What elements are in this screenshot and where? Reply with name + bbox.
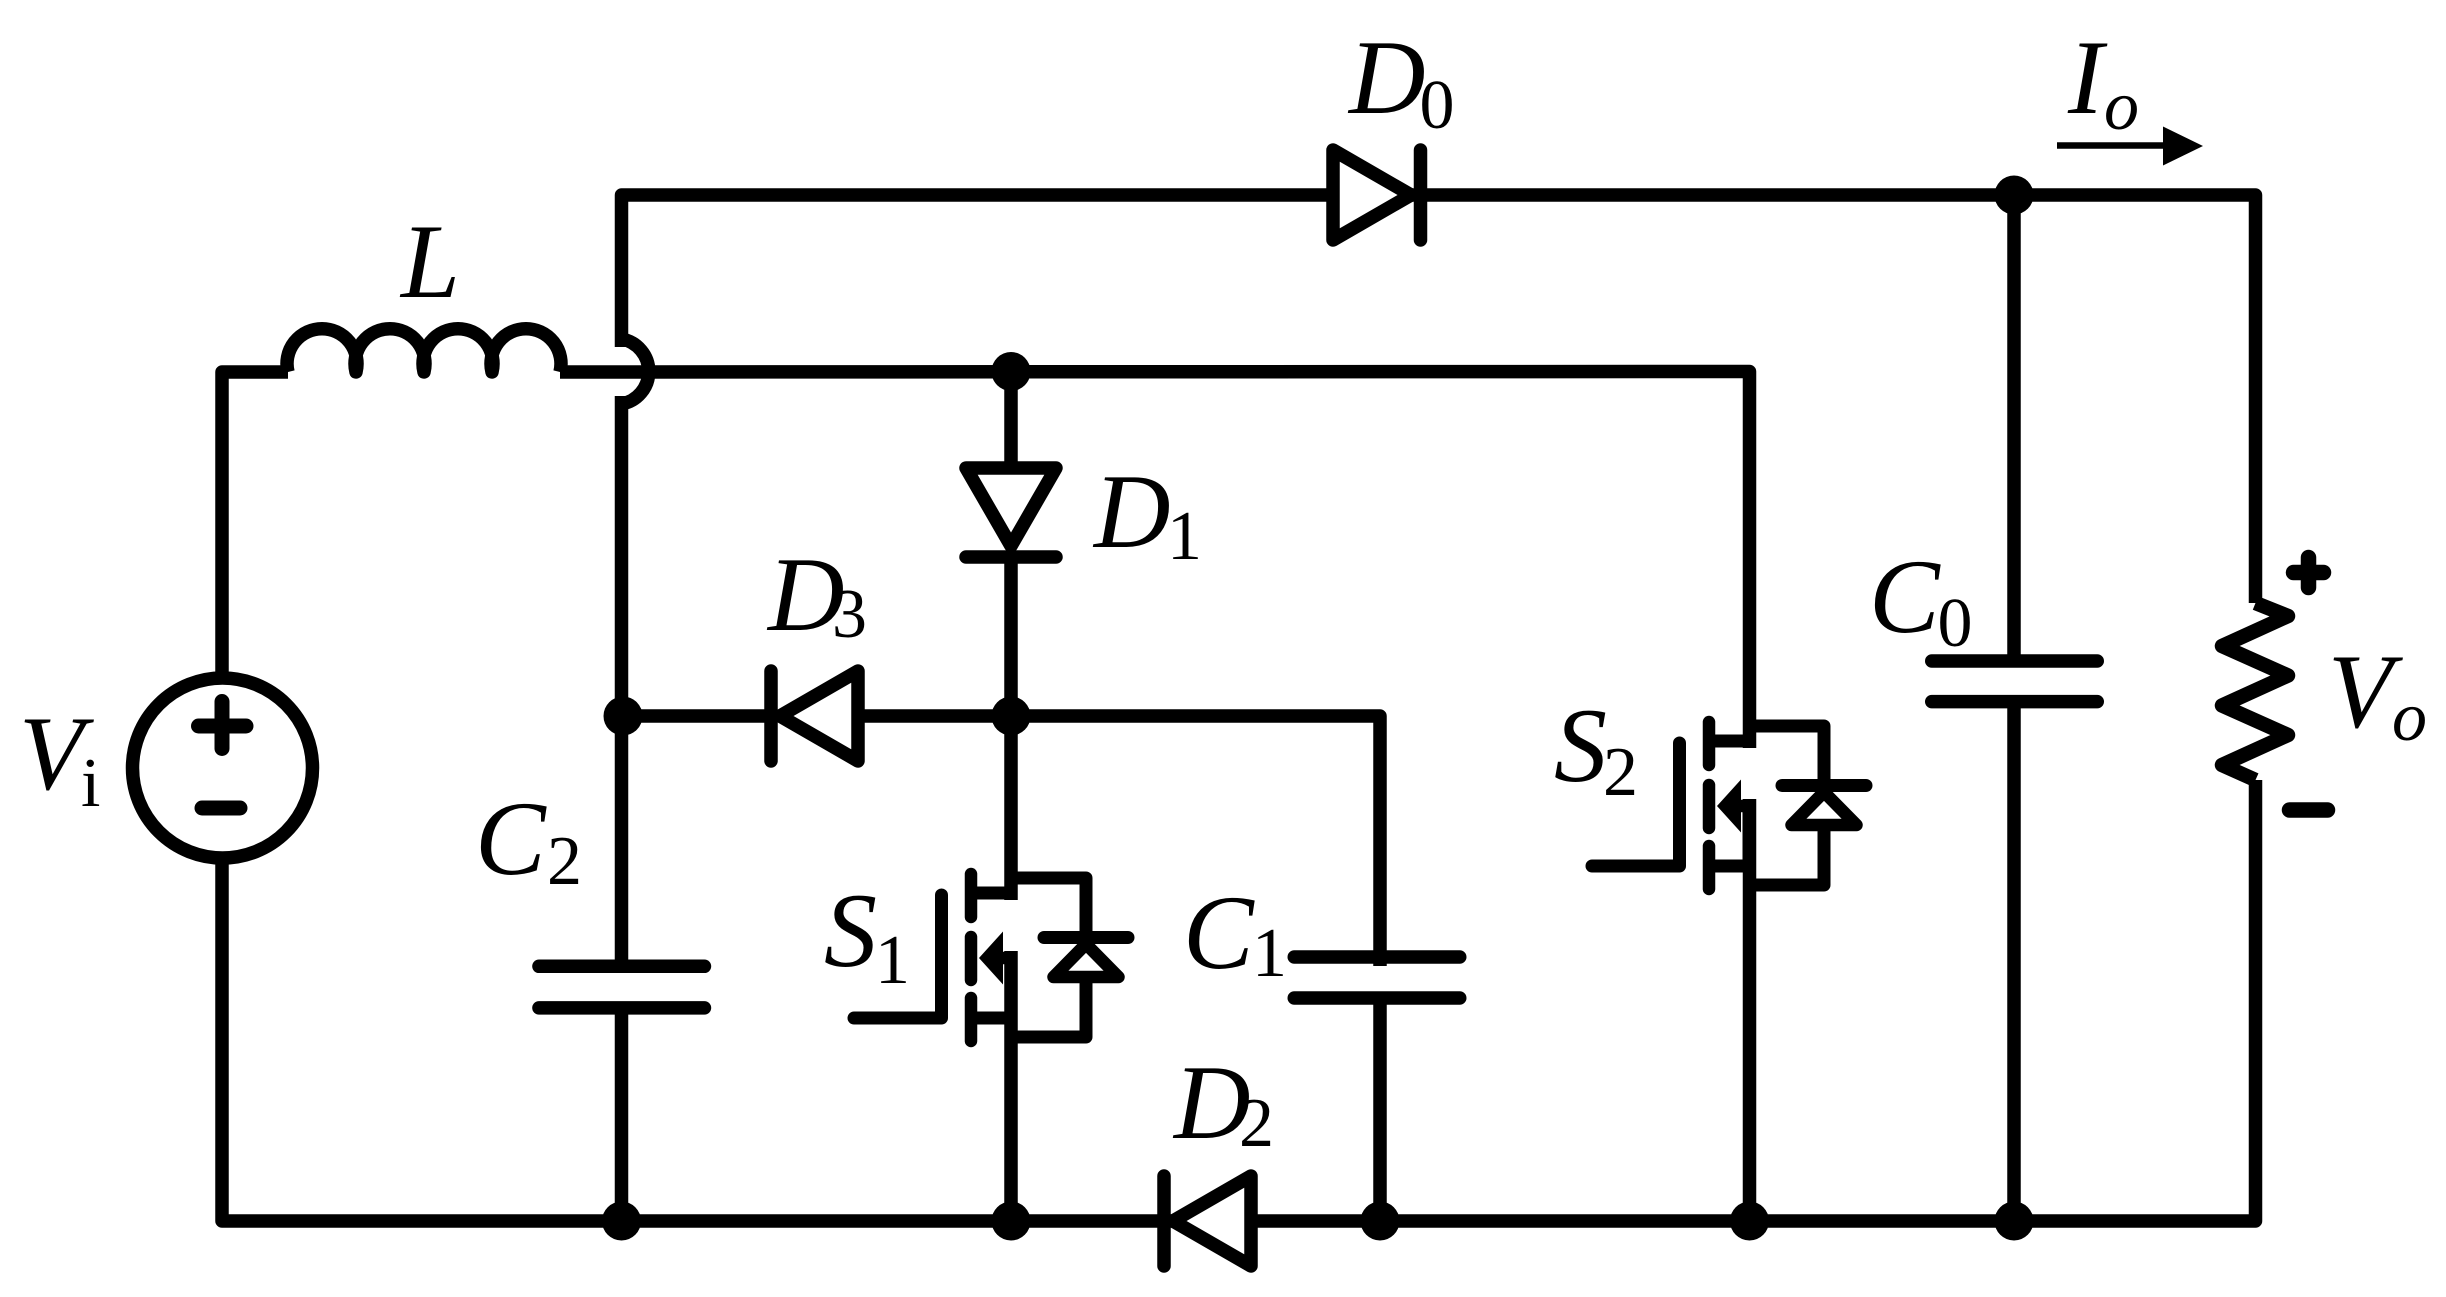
wire S1 drain to node B (1004, 716, 1018, 900)
svg-text:S: S (824, 872, 877, 989)
wire left loop: inductor left lead, Vi branch, bottom rail, load right side (222, 372, 2256, 1221)
node bottom C2 junction (602, 1202, 641, 1241)
svg-text:C: C (1183, 874, 1255, 991)
wire C2 bottom lead (615, 1008, 629, 1221)
svg-text:2: 2 (1603, 734, 1638, 811)
label S1 (824, 872, 910, 999)
current arrow Io (2057, 127, 2203, 166)
capacitor C1 (1294, 957, 1460, 998)
label D1 (1092, 453, 1202, 575)
node bottom C1/D2 junction (1361, 1202, 1400, 1241)
inductor L (287, 329, 561, 372)
svg-text:D: D (1092, 453, 1171, 570)
wire D3 anode to node B (858, 709, 1011, 723)
diode D0 (1333, 150, 1421, 240)
svg-text:I: I (2067, 19, 2108, 136)
diode D1 (966, 468, 1056, 557)
label D3 (766, 536, 867, 653)
node C2/D3 junction (604, 697, 643, 736)
label D2 (1172, 1044, 1274, 1162)
node bottom S1 junction (992, 1202, 1031, 1241)
wire hop lower vertical to C2/D3 node (615, 396, 629, 966)
svg-text:o: o (2392, 679, 2427, 756)
svg-text:3: 3 (832, 576, 867, 653)
svg-text:1: 1 (875, 922, 910, 999)
svg-text:S: S (1554, 687, 1607, 804)
diode D3 (771, 671, 858, 761)
label C0 (1869, 538, 1973, 662)
label Vi (19, 695, 100, 822)
label C1 (1183, 874, 1287, 992)
svg-text:0: 0 (1420, 67, 1455, 144)
wire S1 source to bottom rail (1004, 951, 1018, 1221)
diode D2 (1164, 1176, 1251, 1266)
svg-text:D: D (1347, 19, 1426, 136)
wire hop over rail (622, 339, 649, 404)
node rail/D1 junction (992, 352, 1031, 391)
node bottom C0 junction (1995, 1202, 2034, 1241)
transistor S1 (MOSFET with body diode) (854, 874, 1128, 1041)
node bottom S2 junction (1730, 1202, 1769, 1241)
capacitor C2 (539, 966, 705, 1008)
load minus sign (2290, 802, 2328, 818)
wire C0 bottom lead (2007, 702, 2021, 1221)
wire C2 node to D3 (623, 709, 777, 723)
label Io (2067, 19, 2139, 145)
svg-text:1: 1 (1167, 498, 1202, 575)
capacitor C0 (1932, 661, 2098, 702)
label C2 (475, 780, 582, 900)
label S2 (1554, 687, 1638, 811)
svg-text:o: o (2104, 68, 2139, 145)
wire top loop: hop vertical, top rail, load top lead (622, 195, 2256, 603)
transistor S2 (MOSFET with body diode) (1592, 722, 1866, 889)
load plus sign (2294, 558, 2324, 588)
wire D1 cathode to node B (1004, 557, 1018, 716)
wire C1 bottom lead (1373, 998, 1387, 1221)
svg-text:i: i (81, 745, 100, 822)
svg-text:0: 0 (1938, 585, 1973, 662)
node top wire/C0 junction (1995, 176, 2034, 215)
wire C0 top lead (2007, 195, 2021, 661)
wire node B to C1 top lead (1011, 716, 1380, 966)
resistor load Vo (2222, 603, 2288, 780)
node B central junction (992, 697, 1031, 736)
label L (399, 203, 460, 320)
voltage source Vi (133, 678, 313, 858)
svg-text:C: C (475, 780, 547, 897)
wire middle rail from inductor to S2 drain corner (560, 372, 1750, 749)
svg-text:C: C (1869, 538, 1941, 655)
wire D1 anode branch (1004, 372, 1018, 481)
label D0 (1347, 19, 1455, 144)
svg-text:L: L (399, 203, 460, 320)
label Vo (2328, 633, 2427, 756)
svg-text:2: 2 (547, 823, 582, 900)
svg-text:1: 1 (1252, 915, 1287, 992)
svg-text:2: 2 (1239, 1085, 1274, 1162)
wire S2 source to bottom rail (1743, 799, 1757, 1221)
